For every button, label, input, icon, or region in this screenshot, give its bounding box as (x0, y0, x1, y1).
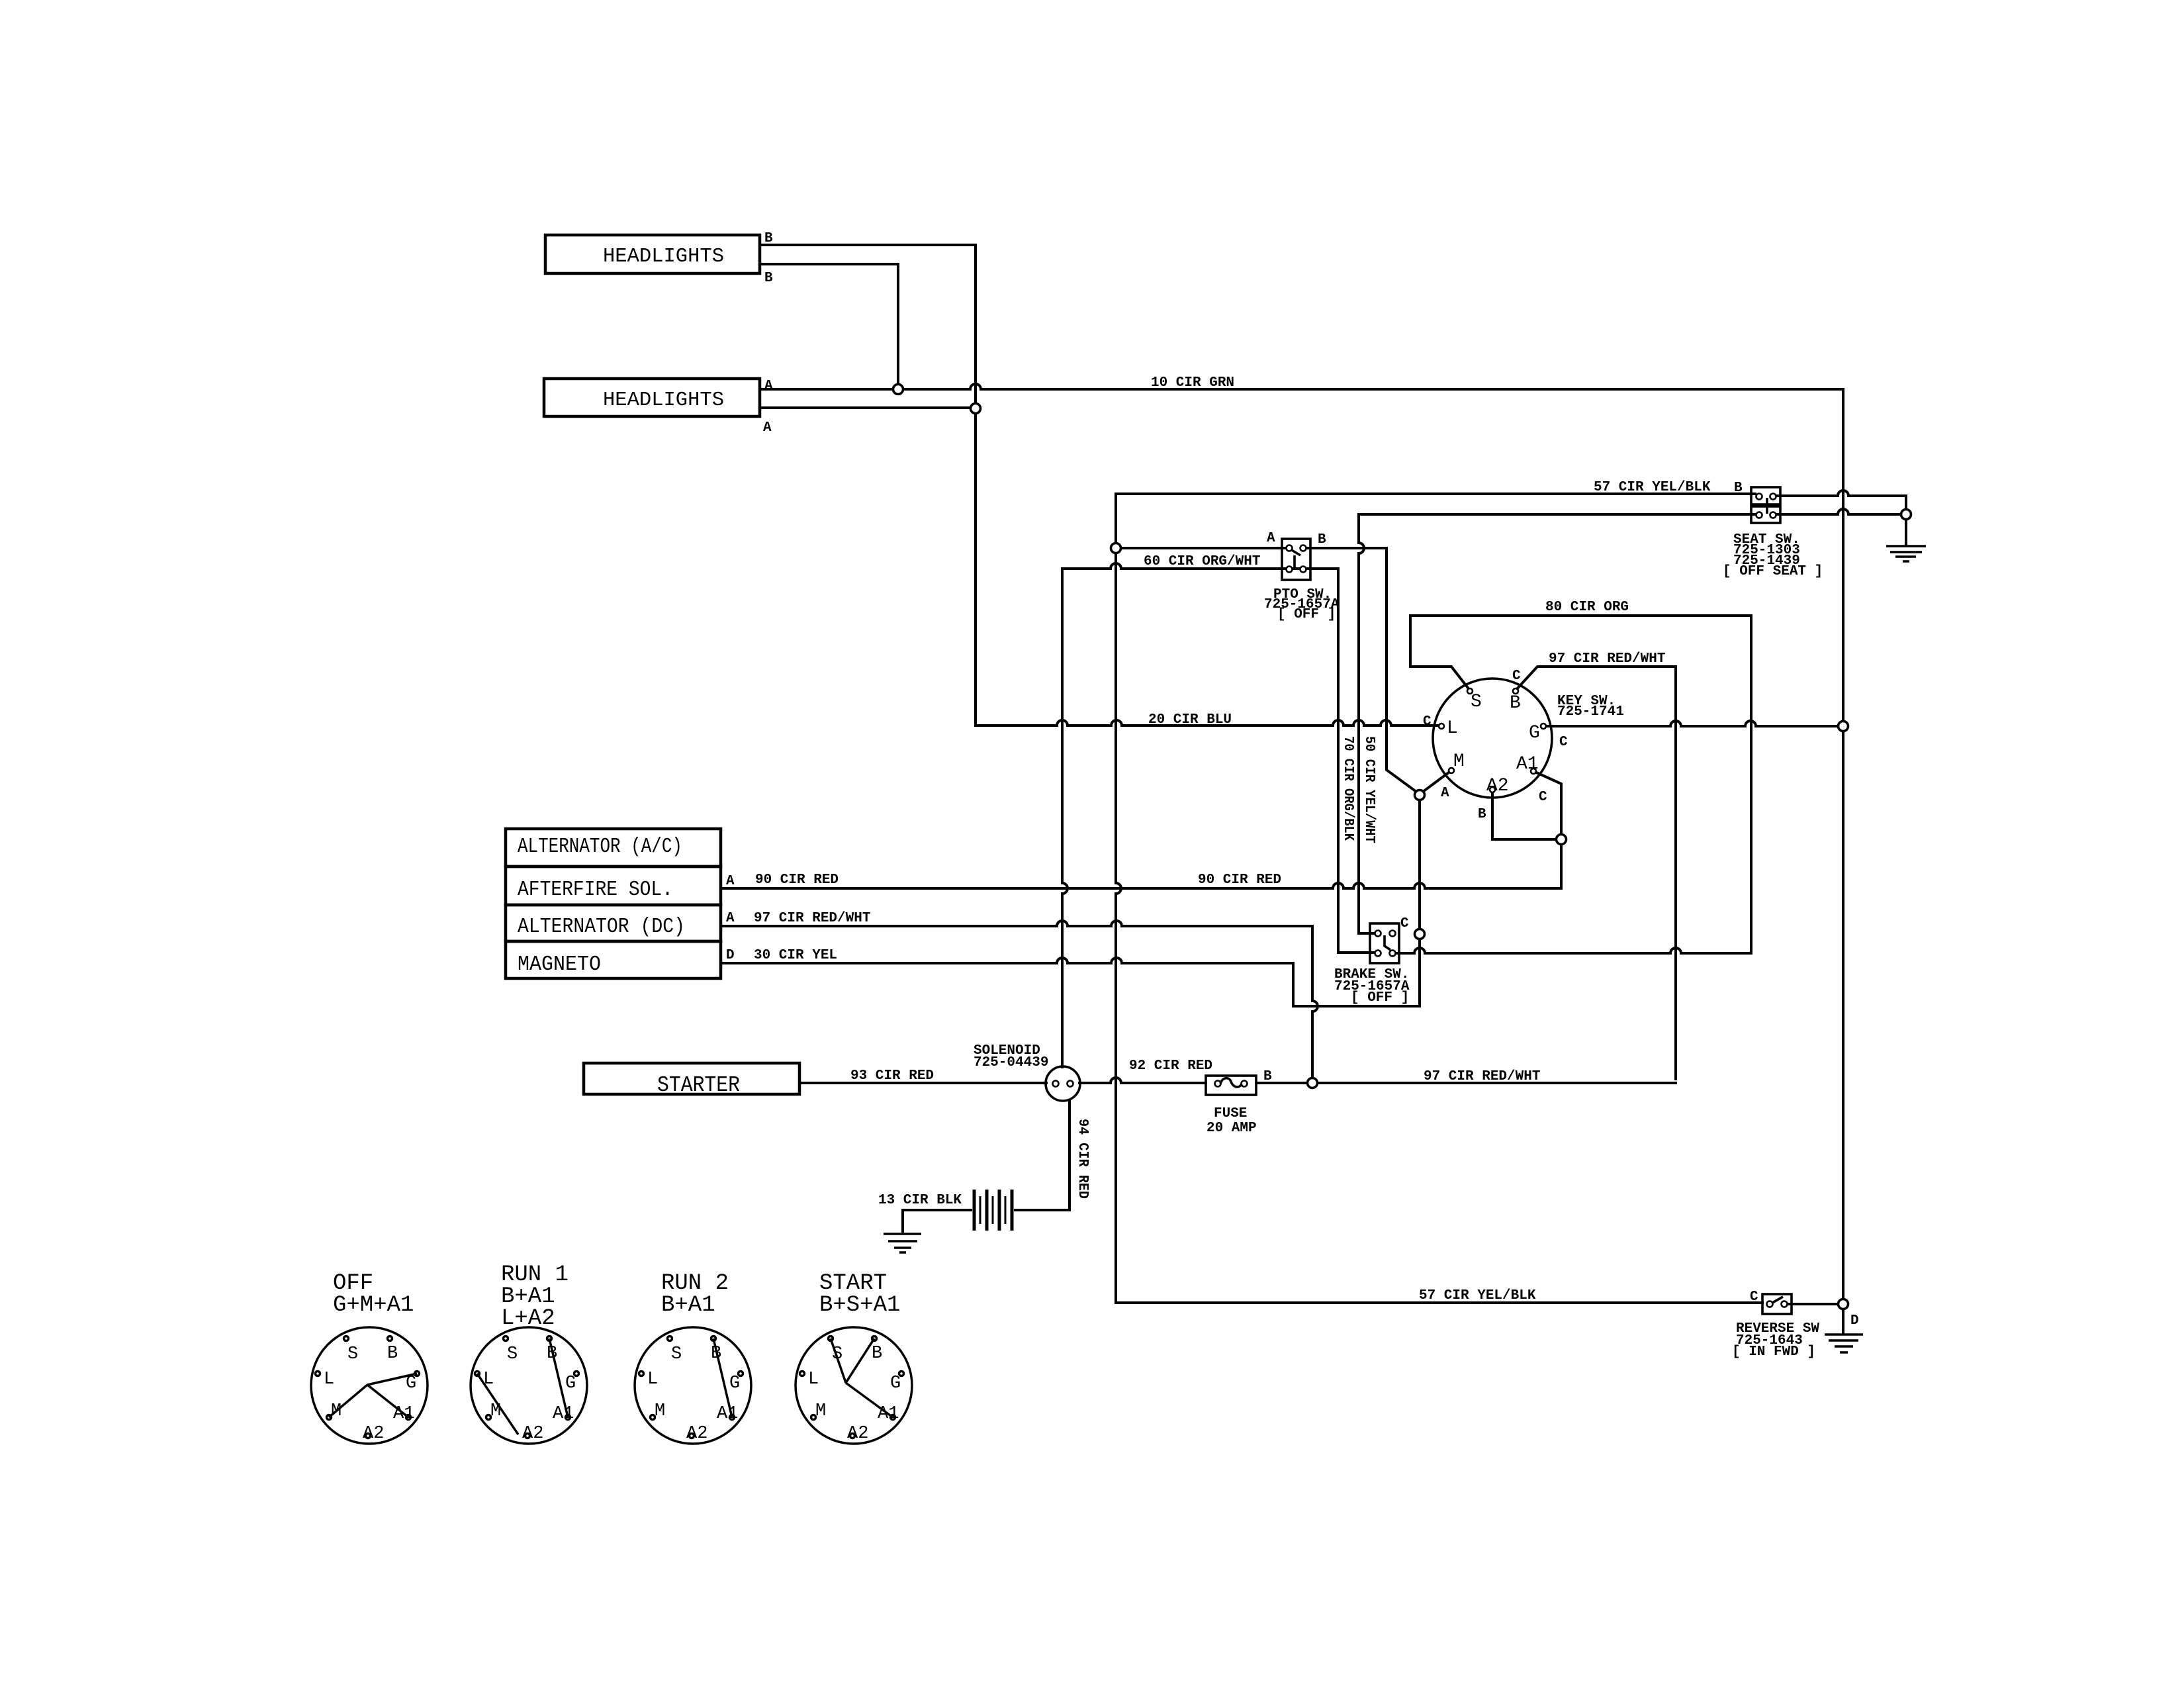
svg-text:A1: A1 (1516, 754, 1539, 774)
svg-text:80 CIR ORG: 80 CIR ORG (1545, 600, 1629, 615)
svg-text:C: C (1400, 916, 1409, 931)
seat switch terminals (1756, 494, 1762, 500)
svg-text:L: L (483, 1370, 494, 1389)
svg-text:HEADLIGHTS: HEADLIGHTS (603, 246, 724, 268)
svg-text:G: G (729, 1374, 740, 1393)
svg-text:D: D (726, 948, 735, 963)
wire 20 CIR BLU (976, 408, 1439, 726)
svg-text:L: L (808, 1370, 819, 1389)
svg-text:AFTERFIRE SOL.: AFTERFIRE SOL. (518, 878, 673, 902)
wire 70 CIR ORG/BLK vertical PTO feed to solenoid (1062, 569, 1068, 1067)
svg-text:G+M+A1: G+M+A1 (333, 1293, 414, 1318)
junction headlights A2 (971, 404, 981, 414)
svg-text:93 CIR RED: 93 CIR RED (850, 1068, 934, 1084)
alternator (DC) box (506, 905, 721, 941)
magneto box (506, 941, 721, 978)
reverse switch terminals (1767, 1301, 1773, 1307)
svg-text:A: A (726, 874, 735, 889)
svg-text:13 CIR BLK: 13 CIR BLK (878, 1193, 962, 1208)
svg-text:D: D (1850, 1313, 1859, 1329)
junction seat switch to ground (1901, 510, 1911, 520)
svg-text:G: G (890, 1374, 901, 1393)
svg-text:ALTERNATOR (DC): ALTERNATOR (DC) (518, 915, 685, 939)
svg-text:A2: A2 (522, 1424, 543, 1444)
key switch terminal L (1439, 724, 1444, 729)
svg-text:57 CIR YEL/BLK: 57 CIR YEL/BLK (1419, 1288, 1536, 1303)
svg-text:57 CIR YEL/BLK: 57 CIR YEL/BLK (1594, 480, 1711, 495)
key position diagram RUN 2 (635, 1327, 751, 1444)
svg-text:97 CIR RED/WHT: 97 CIR RED/WHT (1424, 1069, 1540, 1084)
wire brake C junction down around to magneto wire (1293, 939, 1420, 1006)
svg-text:A2: A2 (847, 1424, 868, 1444)
svg-text:G: G (1529, 723, 1540, 743)
svg-text:B: B (1318, 532, 1326, 547)
wire 94 CIR RED solenoid to battery (1015, 1100, 1069, 1210)
headlights box 1 (545, 235, 760, 273)
svg-text:B+S+A1: B+S+A1 (819, 1293, 900, 1318)
svg-text:C: C (1559, 735, 1568, 750)
svg-text:[ OFF SEAT ]: [ OFF SEAT ] (1723, 564, 1823, 579)
svg-text:97 CIR RED/WHT: 97 CIR RED/WHT (1549, 651, 1665, 667)
ground below seat switch (1886, 546, 1926, 561)
svg-text:92 CIR RED: 92 CIR RED (1129, 1058, 1212, 1074)
headlights box 2 (544, 379, 760, 416)
fuse 20 AMP box (1206, 1076, 1256, 1095)
svg-text:B: B (764, 271, 773, 286)
svg-text:FUSE: FUSE (1214, 1106, 1247, 1121)
svg-text:L: L (1447, 718, 1458, 739)
svg-text:A: A (764, 379, 773, 394)
svg-text:M: M (655, 1401, 665, 1421)
wire headlights-1 pin B lower to junction (760, 264, 898, 385)
svg-text:STARTER: STARTER (657, 1073, 740, 1098)
mini circle terminal letters OFF (324, 1344, 416, 1444)
wire 10 CIR GRN (760, 384, 1843, 389)
svg-text:20 CIR BLU: 20 CIR BLU (1148, 712, 1232, 727)
junction key M / PTO B / brake C node (1415, 790, 1425, 800)
svg-text:C: C (1423, 714, 1432, 729)
mini circle terminal letters START (808, 1344, 901, 1444)
svg-text:A2: A2 (686, 1424, 707, 1444)
afterfire sol. box (506, 867, 721, 905)
svg-text:A: A (1441, 786, 1449, 801)
solenoid 725-04439 circle (1046, 1066, 1080, 1101)
solenoid terminals (1053, 1081, 1059, 1087)
svg-text:A1: A1 (717, 1404, 738, 1424)
junction headlights B2 on 10 CIR GRN (893, 385, 903, 395)
brake switch terminals (1375, 931, 1381, 937)
svg-text:B: B (547, 1344, 557, 1364)
wire key M to junction (1423, 771, 1451, 792)
svg-text:A: A (726, 911, 735, 926)
svg-text:90 CIR RED: 90 CIR RED (755, 872, 839, 888)
wire reverse switch to junction D (1784, 1303, 1839, 1305)
wire headlights-1 pin B to vertical (760, 245, 976, 403)
wire key A2 to junction (1492, 792, 1557, 839)
wire 93 CIR RED starter to solenoid (799, 1082, 1046, 1084)
fuse element (1215, 1081, 1221, 1087)
wire seat ground stem (1905, 519, 1907, 545)
svg-text:ALTERNATOR (A/C): ALTERNATOR (A/C) (518, 835, 682, 859)
wire 30 CIR YEL magneto (721, 958, 1293, 963)
wire brake switch output to 80 CIR ORG vertical (1396, 616, 1751, 953)
wire 90 CIR RED (721, 844, 1561, 888)
key switch terminal B (1513, 688, 1518, 694)
svg-text:L: L (324, 1370, 334, 1389)
svg-text:G: G (565, 1374, 576, 1393)
svg-text:S: S (832, 1344, 842, 1364)
key switch 725-1741 circle (1433, 679, 1552, 798)
seat switch box upper (1751, 487, 1780, 504)
key switch terminal S (1467, 688, 1473, 694)
svg-text:S: S (671, 1344, 682, 1364)
svg-text:B: B (1263, 1069, 1272, 1084)
wire 60 CIR ORG/WHT (1121, 547, 1289, 549)
wire seat switch output top to ground corner (1776, 491, 1906, 514)
svg-text:B: B (711, 1344, 721, 1364)
svg-text:M: M (1453, 751, 1465, 772)
key switch terminal M (1449, 768, 1454, 773)
svg-text:M: M (490, 1401, 501, 1421)
key position diagram OFF (311, 1327, 428, 1444)
ground D below reverse switch (1825, 1335, 1863, 1352)
wire 10 CIR GRN vertical right long (1842, 389, 1844, 1299)
seat switch link (1766, 498, 1768, 514)
wire key B to 97 CIR RED/WHT (1516, 667, 1676, 1079)
svg-text:90 CIR RED: 90 CIR RED (1198, 872, 1281, 888)
wire junction M down to brake C (1418, 799, 1421, 929)
svg-text:70 CIR ORG/BLK: 70 CIR ORG/BLK (1340, 736, 1355, 841)
wire seat switch input bottom 57 CIR YEL/BLK (1359, 509, 1901, 933)
svg-text:A1: A1 (393, 1404, 414, 1424)
seat switch box lower (1751, 506, 1780, 523)
svg-text:S: S (347, 1344, 358, 1364)
key position diagram START (796, 1327, 912, 1444)
svg-text:50 CIR YEL/WHT: 50 CIR YEL/WHT (1361, 736, 1377, 843)
wire 13 CIR BLK battery to ground (903, 1210, 971, 1231)
svg-text:10 CIR GRN: 10 CIR GRN (1151, 375, 1234, 391)
brake switch lever (1385, 935, 1390, 950)
junction G line to 10 CIR GRN vertical (1839, 722, 1848, 731)
PTO switch terminals (1287, 545, 1293, 551)
svg-text:A1: A1 (878, 1404, 899, 1424)
svg-text:[ IN FWD ]: [ IN FWD ] (1732, 1344, 1815, 1360)
wire headlights-2 pin A lower to junction (760, 406, 976, 409)
wire PTO bottom row 70 CIR ORG/BLK upper (1062, 563, 1374, 953)
svg-text:C: C (1512, 669, 1521, 684)
svg-text:M: M (815, 1401, 826, 1421)
battery plates (974, 1190, 1012, 1231)
svg-text:94 CIR RED: 94 CIR RED (1075, 1119, 1090, 1199)
svg-text:[ OFF ]: [ OFF ] (1277, 607, 1336, 622)
junction reverse switch D (1839, 1299, 1848, 1309)
svg-text:L+A2: L+A2 (501, 1306, 555, 1331)
svg-text:M: M (331, 1401, 341, 1421)
wire fuse B to 97 CIR RED/WHT right (1256, 1082, 1676, 1084)
wire 57 CIR YEL/BLK vertical long (1116, 494, 1762, 1303)
mini circle terminal letters RUN 1 (483, 1344, 576, 1444)
svg-text:S: S (1471, 692, 1482, 712)
key switch terminal A1 (1531, 769, 1536, 774)
svg-text:[ OFF ]: [ OFF ] (1351, 990, 1409, 1006)
PTO switch 725-1657A box (1282, 539, 1310, 580)
junction brake C (1415, 929, 1425, 939)
wire 92 CIR RED solenoid to fuse (1079, 1078, 1206, 1083)
svg-text:L: L (647, 1370, 658, 1389)
svg-text:C: C (1750, 1289, 1758, 1305)
svg-text:B+A1: B+A1 (661, 1293, 715, 1318)
PTO switch lever (1291, 549, 1300, 568)
svg-text:B: B (387, 1344, 398, 1364)
svg-text:A1: A1 (553, 1404, 574, 1424)
wire 57 CIR YEL/BLK top (1116, 492, 1755, 495)
svg-text:30 CIR YEL: 30 CIR YEL (754, 948, 837, 963)
svg-text:725-04439: 725-04439 (974, 1055, 1048, 1070)
svg-text:A2: A2 (1486, 776, 1509, 796)
junction fuse output 97 CIR RED/WHT (1308, 1078, 1318, 1088)
svg-text:B: B (1478, 807, 1486, 822)
key position diagram RUN 1 (471, 1327, 587, 1444)
junction A1 A2 to 90 CIR RED (1557, 835, 1567, 845)
reverse switch lever (1772, 1297, 1783, 1303)
svg-text:20 AMP: 20 AMP (1206, 1121, 1257, 1136)
svg-text:G: G (406, 1374, 416, 1393)
alternator (A/C) box (506, 829, 721, 867)
svg-text:B: B (764, 231, 773, 246)
mini circle terminal letters RUN 2 (647, 1344, 740, 1444)
svg-text:C: C (1539, 790, 1547, 805)
wire 97 CIR RED/WHT alternator DC (721, 921, 1318, 1078)
wire PTO B out down to key M junction (1303, 548, 1416, 792)
wire 80 CIR ORG (1410, 616, 1751, 690)
wire key G to junction right (1546, 721, 1839, 726)
svg-text:A: A (763, 420, 772, 436)
svg-text:B: B (872, 1344, 882, 1364)
svg-text:B: B (1734, 481, 1743, 496)
svg-text:A: A (1267, 531, 1275, 546)
wire key A1 to junction (1533, 771, 1561, 835)
svg-text:MAGNETO: MAGNETO (518, 953, 601, 976)
wire brake switch A input from 50 CIR YEL/WHT (1359, 932, 1374, 935)
svg-text:60 CIR ORG/WHT: 60 CIR ORG/WHT (1144, 554, 1260, 569)
wire junction D to ground stem (1842, 1309, 1844, 1333)
svg-text:HEADLIGHTS: HEADLIGHTS (603, 389, 724, 412)
brake switch 725-1657A box (1370, 923, 1399, 963)
svg-text:725-1741: 725-1741 (1557, 704, 1624, 720)
reverse switch 725-1643 box (1762, 1294, 1792, 1314)
svg-text:S: S (507, 1344, 518, 1364)
svg-text:A2: A2 (363, 1424, 384, 1444)
junction 60 CIR ORG/WHT start (1111, 543, 1121, 553)
svg-text:97 CIR RED/WHT: 97 CIR RED/WHT (754, 911, 870, 926)
ground below battery 13 CIR BLK (884, 1234, 921, 1252)
starter box (584, 1063, 799, 1094)
key switch terminal A2 (1490, 787, 1495, 792)
svg-text:B: B (1510, 693, 1521, 714)
key switch terminal G (1541, 724, 1546, 729)
